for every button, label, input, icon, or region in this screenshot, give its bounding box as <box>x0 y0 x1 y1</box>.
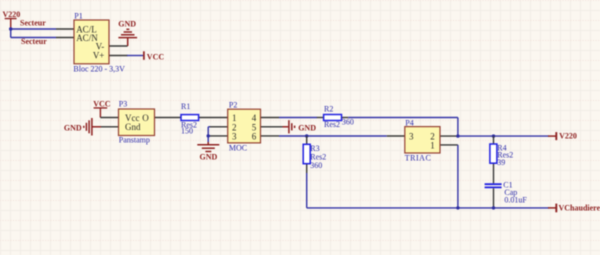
junction R4 top <box>492 134 495 137</box>
svg-text:1: 1 <box>430 140 435 150</box>
svg-text:Panstamp: Panstamp <box>119 135 150 144</box>
wire P2 pin2/pin3 to GND <box>207 127 209 142</box>
svg-text:VCC: VCC <box>147 52 165 61</box>
body R3 <box>303 144 310 163</box>
body R4 <box>490 144 497 163</box>
wire P4 pin2 to V220 port <box>458 135 549 137</box>
svg-text:0.01uF: 0.01uF <box>504 195 527 204</box>
pin 3 <box>210 135 229 137</box>
svg-text:P3: P3 <box>119 100 127 109</box>
power port V220 (right) <box>548 132 577 141</box>
power port GND (right of P2, pin 5) <box>283 120 317 133</box>
wire R2 to corner and down to P4 pin2 net <box>348 118 458 137</box>
pin V+ <box>109 55 128 57</box>
pin 6 <box>261 135 280 137</box>
capacitor C1 Cap 0.01uF <box>485 181 528 208</box>
wire V+ to VCC <box>127 55 143 57</box>
svg-text:Secteur: Secteur <box>20 18 46 27</box>
svg-text:Res2: Res2 <box>324 120 340 129</box>
power port VCC (above P3) <box>93 100 111 118</box>
junction C1 / rail <box>492 206 495 209</box>
pin 5 <box>261 126 283 128</box>
junction P2 pin3 / GND <box>207 134 210 137</box>
body P2 <box>228 109 261 143</box>
module P3 Panstamp <box>100 100 181 145</box>
pin 1 <box>440 144 458 146</box>
wire bottom rail to VChaudiere <box>307 207 549 209</box>
svg-text:MOC: MOC <box>229 143 247 152</box>
pin Gnd <box>101 126 119 128</box>
pin top of R3 <box>306 136 308 144</box>
pin bottom of R4 <box>493 163 495 183</box>
svg-text:Gnd: Gnd <box>125 122 141 132</box>
body P4 <box>405 127 440 153</box>
pin 3 <box>387 135 405 137</box>
body R1 <box>181 115 199 121</box>
plate bottom <box>485 186 502 188</box>
resistor R2 Res2 360 <box>317 104 354 129</box>
power port GND (at P1 V-) <box>118 19 137 46</box>
pin bottom of C1 <box>493 188 495 208</box>
pin right of R2 <box>342 117 349 119</box>
pin 4 <box>261 117 280 119</box>
svg-text:R1: R1 <box>181 102 190 111</box>
svg-text:GND: GND <box>298 124 316 133</box>
resistor R3 Res2 360 <box>303 136 326 173</box>
svg-text:3: 3 <box>232 132 237 142</box>
power port VChaudiere <box>548 203 600 212</box>
wire P2 pin6 to P4 pin3 <box>279 135 387 137</box>
junction R3 top <box>305 134 308 137</box>
wire P4 pin1 down to rail <box>457 145 459 208</box>
svg-text:P1: P1 <box>74 12 82 21</box>
svg-text:V+: V+ <box>93 51 105 61</box>
pin left of R2 <box>317 117 324 119</box>
pin 2 <box>440 135 458 137</box>
pin AC/L <box>56 28 74 30</box>
resistor R1 Res2 150 <box>181 102 228 136</box>
wire R3 bottom to rail <box>306 173 308 208</box>
wire net Secteur2 (AC/N) <box>11 37 56 39</box>
svg-text:P4: P4 <box>405 119 413 128</box>
svg-text:V220: V220 <box>559 132 577 141</box>
svg-text:39: 39 <box>497 158 505 167</box>
plate top <box>485 183 502 185</box>
svg-text:Secteur: Secteur <box>21 37 47 46</box>
svg-text:R2: R2 <box>324 104 333 113</box>
body P1 <box>74 20 109 64</box>
junction R2 net / P4 pin2 <box>456 134 459 137</box>
junction P4 pin1 / rail <box>456 206 459 209</box>
junction at V220/Secteur <box>9 27 12 30</box>
svg-text:Bloc 220 - 3,3V: Bloc 220 - 3,3V <box>73 64 125 73</box>
svg-text:V220: V220 <box>3 10 21 19</box>
svg-text:3: 3 <box>409 132 414 142</box>
pin O (output) <box>155 117 182 119</box>
power port GND (below P2) <box>197 142 219 161</box>
svg-text:P2: P2 <box>229 101 237 110</box>
resistor R4 Res2 39 <box>490 136 513 183</box>
connector P1 Bloc 220 - 3,3V <box>56 12 128 74</box>
power port GND (left of P3) <box>64 118 101 136</box>
pin V- <box>109 45 128 47</box>
wire net Secteur (AC/L) <box>11 28 56 30</box>
svg-text:TRIAC: TRIAC <box>405 154 432 163</box>
pin 2 <box>210 126 229 128</box>
power port VCC (at P1 V+) <box>144 51 164 61</box>
svg-text:GND: GND <box>200 152 218 161</box>
svg-text:6: 6 <box>252 132 257 142</box>
svg-text:VChaudiere: VChaudiere <box>559 203 600 212</box>
pin top of R4 <box>493 136 495 144</box>
power port V220 (top-left) <box>3 10 21 29</box>
optocoupler P2 MOC <box>210 101 283 153</box>
pin AC/N <box>56 37 74 39</box>
svg-text:GND: GND <box>64 124 82 133</box>
body R2 <box>324 115 342 121</box>
svg-text:360: 360 <box>342 117 354 126</box>
pin Vcc <box>100 117 118 119</box>
svg-text:O: O <box>142 113 149 123</box>
wire P2 pin4 to R2 <box>279 117 317 119</box>
svg-text:150: 150 <box>181 127 193 136</box>
body P3 <box>119 109 155 136</box>
svg-text:360: 360 <box>310 161 322 170</box>
pin right of R1 to P2 <box>199 117 228 119</box>
triac P4 <box>387 119 458 163</box>
pin bottom of R3 <box>306 164 308 173</box>
svg-text:GND: GND <box>118 19 136 28</box>
wire net Secteur2 vertical <box>10 28 12 37</box>
